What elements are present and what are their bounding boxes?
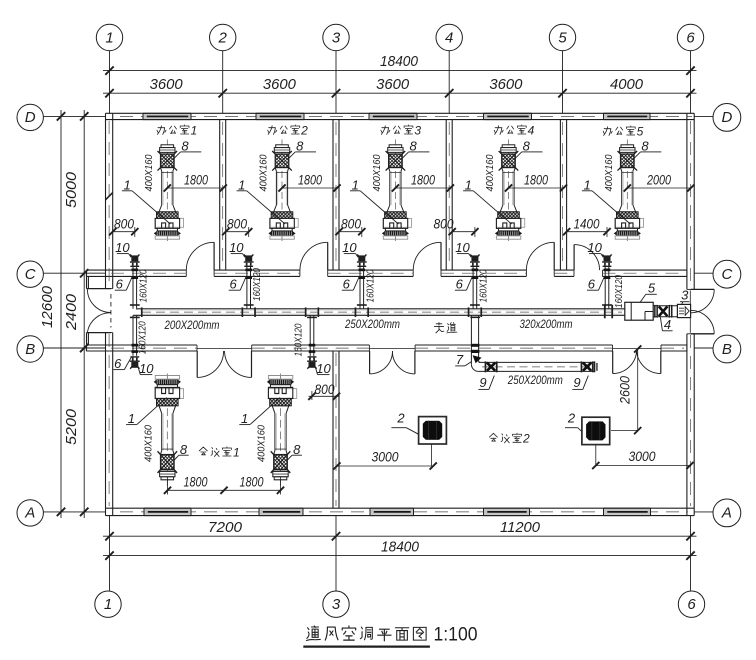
west porch double door xyxy=(87,288,111,290)
meeting room 2 double door 2 xyxy=(612,351,614,374)
fan coil unit 1 meeting room 1 (2) xyxy=(267,371,297,486)
dimension line: bottom segments 7200 / 11200 xyxy=(103,535,697,537)
svg-text:9: 9 xyxy=(479,375,486,390)
diffuser X-box 8 xyxy=(275,154,289,168)
svg-text:160X120: 160X120 xyxy=(613,275,625,308)
dimension line: left overall 12600 xyxy=(60,110,62,518)
svg-text:8: 8 xyxy=(180,442,188,457)
svg-text:160X120: 160X120 xyxy=(364,269,376,302)
flare xyxy=(159,205,162,212)
duct 400X160 xyxy=(389,171,391,205)
svg-text:6: 6 xyxy=(588,277,596,292)
office doors 1-4 (hinge right, open up) xyxy=(213,242,215,270)
diffuser X-box 8 xyxy=(161,154,175,168)
svg-text:400X160: 400X160 xyxy=(484,154,496,191)
svg-text:1800: 1800 xyxy=(524,171,548,187)
svg-text:7: 7 xyxy=(456,352,464,367)
duct 400X160 xyxy=(161,171,163,205)
svg-text:B: B xyxy=(25,341,35,358)
top grille cap xyxy=(274,477,287,480)
svg-text:C: C xyxy=(25,266,36,283)
meeting room 2 double door 1 xyxy=(369,351,371,374)
neck xyxy=(161,168,162,172)
svg-text:2: 2 xyxy=(567,410,576,425)
top grille cap xyxy=(161,145,174,148)
svg-text:1800: 1800 xyxy=(411,171,435,187)
air terminal 10 office 4 xyxy=(470,254,480,267)
office 800/1400 offset dimensions xyxy=(113,231,135,233)
svg-text:400X160: 400X160 xyxy=(371,154,383,191)
svg-text:10: 10 xyxy=(316,361,331,376)
crosshatch collar xyxy=(157,398,179,405)
body xyxy=(615,218,643,227)
diffuser X-box 8 xyxy=(161,455,175,470)
top grille cap xyxy=(161,477,174,480)
axis circles right D,C,B,A xyxy=(713,104,741,132)
square diffuser 2 (left) xyxy=(419,417,447,444)
duct 400X160 xyxy=(502,171,504,205)
wall: bottom exterior wall (axis A) xyxy=(106,507,695,509)
crossing branches down to meeting room 1 xyxy=(132,315,134,356)
damper 9 (right) xyxy=(581,361,583,372)
flare xyxy=(500,205,503,212)
svg-text:800: 800 xyxy=(434,215,454,231)
svg-text:160X120: 160X120 xyxy=(137,321,149,354)
office 5 door (hinge left) xyxy=(573,245,575,271)
axis circles left D,C,B,A xyxy=(17,104,43,130)
svg-text:10: 10 xyxy=(229,240,244,255)
bottom grille xyxy=(270,379,292,385)
svg-text:8: 8 xyxy=(181,139,189,154)
branch flange bars at main duct junctions xyxy=(242,307,244,317)
svg-text:6: 6 xyxy=(114,356,122,371)
svg-text:2: 2 xyxy=(218,29,228,46)
silencer/fan unit 5 xyxy=(625,302,653,320)
body xyxy=(383,218,411,227)
top grille cap xyxy=(621,145,634,148)
svg-text:12600: 12600 xyxy=(39,285,56,328)
damper 9 (left) xyxy=(485,361,487,372)
svg-text:5: 5 xyxy=(648,281,656,296)
svg-text:A: A xyxy=(721,505,732,522)
svg-text:3: 3 xyxy=(681,288,689,303)
room label office 2 xyxy=(268,126,277,135)
svg-text:6: 6 xyxy=(456,277,464,292)
svg-text:6: 6 xyxy=(229,277,237,292)
fan coil unit 1 office 4 xyxy=(495,140,525,244)
diffuser X-box 8 xyxy=(502,154,516,168)
windows in top wall xyxy=(143,114,191,119)
duct end cap xyxy=(594,361,596,372)
bottom grille xyxy=(156,379,178,385)
neck xyxy=(621,168,622,172)
crosshatch collar xyxy=(385,212,407,219)
east exterior double door xyxy=(691,288,714,290)
lower tray xyxy=(272,228,292,231)
top grille cap xyxy=(389,145,402,148)
svg-text:D: D xyxy=(25,109,36,126)
elbow 7 with flow arrow xyxy=(471,364,478,371)
svg-text:6: 6 xyxy=(686,29,695,46)
svg-text:400X160: 400X160 xyxy=(603,154,615,191)
svg-text:3: 3 xyxy=(414,123,421,137)
svg-text:1: 1 xyxy=(105,29,113,46)
meeting room 1 800 dimension xyxy=(309,395,339,397)
svg-text:2: 2 xyxy=(300,123,308,137)
svg-text:1: 1 xyxy=(128,411,135,426)
svg-text:8: 8 xyxy=(523,139,531,154)
bottom grille xyxy=(498,231,520,236)
meeting room 1 double door xyxy=(196,351,198,377)
svg-text:160X120: 160X120 xyxy=(293,323,305,356)
duct 400X160 xyxy=(274,413,276,450)
svg-text:10: 10 xyxy=(115,240,130,255)
square diffuser 2 (right) xyxy=(582,417,610,444)
vertical branch ducts 160X120 (offices) xyxy=(132,267,134,309)
centerline xyxy=(394,140,396,244)
svg-text:6: 6 xyxy=(687,596,696,613)
svg-text:3600: 3600 xyxy=(150,76,184,93)
svg-text:5: 5 xyxy=(558,29,567,46)
svg-text:1800: 1800 xyxy=(298,171,322,187)
axis lines left xyxy=(44,115,106,117)
svg-text:3600: 3600 xyxy=(489,76,523,93)
svg-text:250X200mm: 250X200mm xyxy=(344,319,400,331)
axis lines top xyxy=(109,51,111,114)
body xyxy=(270,218,298,227)
neck xyxy=(161,451,162,455)
svg-text:400X160: 400X160 xyxy=(143,425,155,462)
svg-text:1: 1 xyxy=(465,177,472,192)
svg-text:320x200mm: 320x200mm xyxy=(520,319,573,331)
svg-text:4: 4 xyxy=(445,29,453,46)
crosshatch collar xyxy=(498,212,520,219)
body xyxy=(155,389,183,399)
wall: meeting room partition (axis 3 lower) xyxy=(332,351,334,508)
svg-text:3000: 3000 xyxy=(629,448,656,464)
flexible connector / damper 4 xyxy=(653,305,677,307)
body xyxy=(155,218,183,227)
air terminal 10 office 3 xyxy=(357,254,367,267)
svg-text:1: 1 xyxy=(233,445,240,459)
branch duct 250x200 down to meeting room 2 xyxy=(470,315,472,364)
wall: corridor north wall with door openings xyxy=(86,269,186,271)
air terminal 10 meeting room 1 right xyxy=(307,356,317,369)
duct 400X160 xyxy=(161,413,163,450)
room label meeting room 2 xyxy=(489,433,497,441)
duct 400X160 xyxy=(275,171,277,205)
wall: right exterior wall (axis 6) xyxy=(686,113,688,289)
room label office 3 xyxy=(381,126,390,135)
centerline xyxy=(166,140,168,244)
svg-text:6: 6 xyxy=(116,277,124,292)
svg-text:4000: 4000 xyxy=(610,76,644,93)
air terminal 10 office 1 xyxy=(130,254,140,267)
fire damper bars at corridor north wall xyxy=(132,269,139,272)
fan coil unit 1 office 3 xyxy=(382,140,412,244)
axis circles bottom 1,3,6 xyxy=(95,591,121,617)
svg-text:3600: 3600 xyxy=(376,76,410,93)
fan coil unit 1 office 2 xyxy=(268,140,298,244)
room label office 1 xyxy=(157,126,166,135)
neck xyxy=(274,451,275,455)
svg-text:10: 10 xyxy=(587,240,602,255)
svg-text:8: 8 xyxy=(296,139,304,154)
main corridor duct xyxy=(141,308,625,310)
svg-text:18400: 18400 xyxy=(380,53,419,70)
crosshatch collar xyxy=(270,398,292,405)
lower duct 250X200mm in meeting room 2 xyxy=(479,361,594,363)
diffuser X-box 8 xyxy=(389,154,403,168)
svg-text:1: 1 xyxy=(241,411,248,426)
svg-text:5000: 5000 xyxy=(63,171,80,208)
svg-text:18400: 18400 xyxy=(381,538,420,555)
crosshatch collar xyxy=(271,212,293,219)
svg-text:1:100: 1:100 xyxy=(434,624,478,645)
dimension line: bottom overall 18400 xyxy=(103,555,697,557)
svg-text:1400: 1400 xyxy=(574,215,600,231)
room label meeting room 1 xyxy=(199,447,207,455)
svg-text:8: 8 xyxy=(293,442,301,457)
svg-text:A: A xyxy=(24,505,35,522)
lower tray xyxy=(617,228,637,231)
wall: office partition walls (axes 2-5) xyxy=(219,120,221,271)
svg-text:400X160: 400X160 xyxy=(258,154,270,191)
svg-text:160X120: 160X120 xyxy=(138,269,150,302)
centerline xyxy=(281,140,283,244)
centerline xyxy=(280,371,282,486)
svg-text:800: 800 xyxy=(114,215,134,231)
svg-text:8: 8 xyxy=(409,139,417,154)
wall: corridor south wall with door openings xyxy=(86,344,197,346)
windows in bottom wall xyxy=(144,509,191,515)
crosshatch collar xyxy=(617,212,639,219)
bottom grille xyxy=(156,231,178,236)
body xyxy=(268,389,296,399)
svg-text:C: C xyxy=(721,266,732,283)
svg-text:2400: 2400 xyxy=(63,293,80,331)
meeting room 1 1800+1800 dimension xyxy=(168,489,281,491)
axis lines bottom xyxy=(109,516,111,591)
centerline xyxy=(166,371,168,486)
centerline xyxy=(508,140,510,244)
svg-text:6: 6 xyxy=(343,277,351,292)
air terminal 10 office 5 xyxy=(602,254,612,267)
svg-text:3: 3 xyxy=(332,29,341,46)
svg-text:8: 8 xyxy=(641,139,649,154)
axis circles top 1-6 xyxy=(96,24,122,50)
svg-text:3600: 3600 xyxy=(263,76,297,93)
svg-text:4: 4 xyxy=(664,317,671,332)
svg-text:9: 9 xyxy=(573,375,580,390)
svg-text:1: 1 xyxy=(190,123,197,137)
diffuser X-box 8 xyxy=(274,455,288,470)
room label office 4 xyxy=(494,126,503,135)
dimension line: top overall 18400 xyxy=(103,70,697,72)
lower tray xyxy=(271,385,291,388)
bottom grille xyxy=(384,231,406,236)
flare xyxy=(272,406,275,414)
duct 400X160 xyxy=(621,171,623,205)
neck xyxy=(275,168,276,172)
diffuser X-box 8 xyxy=(621,154,635,168)
flare xyxy=(159,406,162,414)
svg-text:10: 10 xyxy=(455,240,470,255)
air terminal 10 meeting room 1 left xyxy=(130,356,140,369)
svg-text:2: 2 xyxy=(396,410,405,425)
svg-text:5200: 5200 xyxy=(63,408,80,445)
svg-text:B: B xyxy=(722,341,732,358)
svg-text:3000: 3000 xyxy=(372,449,399,465)
exhaust louver 3 xyxy=(677,304,690,317)
crosshatch collar xyxy=(157,212,179,219)
svg-text:4: 4 xyxy=(528,123,535,137)
svg-text:1: 1 xyxy=(104,596,112,613)
top grille cap xyxy=(502,145,515,148)
room label office 5 xyxy=(603,127,612,136)
svg-text:2: 2 xyxy=(522,432,530,446)
lower tray xyxy=(385,228,405,231)
svg-text:250X200mm: 250X200mm xyxy=(507,375,563,387)
svg-text:200X200mm: 200X200mm xyxy=(164,320,220,332)
lower tray xyxy=(157,228,177,231)
svg-text:800: 800 xyxy=(341,215,361,231)
lower tray xyxy=(157,385,177,388)
svg-text:1: 1 xyxy=(238,177,245,192)
wall: west porch / vestibule walls xyxy=(86,270,88,289)
neck xyxy=(502,168,503,172)
3000 dimensions xyxy=(337,465,433,467)
svg-text:1: 1 xyxy=(583,177,590,192)
svg-text:1800: 1800 xyxy=(240,474,264,490)
svg-text:1: 1 xyxy=(352,177,359,192)
svg-text:160X120: 160X120 xyxy=(477,269,489,302)
neck xyxy=(389,168,390,172)
svg-text:D: D xyxy=(721,109,732,126)
svg-text:5: 5 xyxy=(637,124,644,138)
bottom grille xyxy=(271,231,293,236)
svg-text:2600: 2600 xyxy=(617,376,633,405)
top grille cap xyxy=(276,145,289,148)
svg-text:7200: 7200 xyxy=(208,519,243,536)
wall: left exterior wall (axis 1) xyxy=(105,113,107,288)
svg-text:800: 800 xyxy=(315,381,335,397)
dimension line: top segments 3600x4 + 4000 xyxy=(103,92,697,94)
svg-text:160X120: 160X120 xyxy=(251,268,263,301)
body xyxy=(496,218,524,227)
fire damper bars at corridor south wall xyxy=(132,344,139,347)
svg-text:800: 800 xyxy=(227,215,247,231)
svg-text:400X160: 400X160 xyxy=(143,154,155,191)
2600 dimension xyxy=(637,349,639,431)
centerline xyxy=(626,140,628,244)
wall: top exterior wall (axis D) xyxy=(106,112,695,114)
flare xyxy=(619,205,622,212)
office 1800/2000 dimensions xyxy=(167,187,223,189)
title xyxy=(306,626,320,641)
svg-text:1: 1 xyxy=(123,177,130,192)
corridor label xyxy=(434,323,444,333)
svg-text:2000: 2000 xyxy=(646,171,671,187)
bottom grille xyxy=(616,231,638,236)
axis lines right xyxy=(694,115,713,117)
svg-text:400X160: 400X160 xyxy=(256,425,268,462)
fan coil unit 1 office 1 xyxy=(154,140,184,244)
flare xyxy=(274,205,277,212)
air terminal 10 office 2 xyxy=(244,254,254,267)
svg-text:3: 3 xyxy=(332,596,341,613)
lower tray xyxy=(499,228,519,231)
fan coil unit 1 meeting room 1 (1) xyxy=(154,371,184,486)
svg-text:10: 10 xyxy=(139,361,154,376)
fan coil unit 1 office 5 xyxy=(614,140,644,244)
flare xyxy=(387,205,390,212)
dimension line: left segments 5000/2400/5200 xyxy=(83,110,85,518)
svg-text:10: 10 xyxy=(342,240,357,255)
svg-text:11200: 11200 xyxy=(500,519,541,536)
svg-text:1800: 1800 xyxy=(184,474,208,490)
small tick on left wall xyxy=(106,193,113,200)
wall centerline dashes xyxy=(108,121,110,287)
svg-text:1800: 1800 xyxy=(184,171,208,187)
